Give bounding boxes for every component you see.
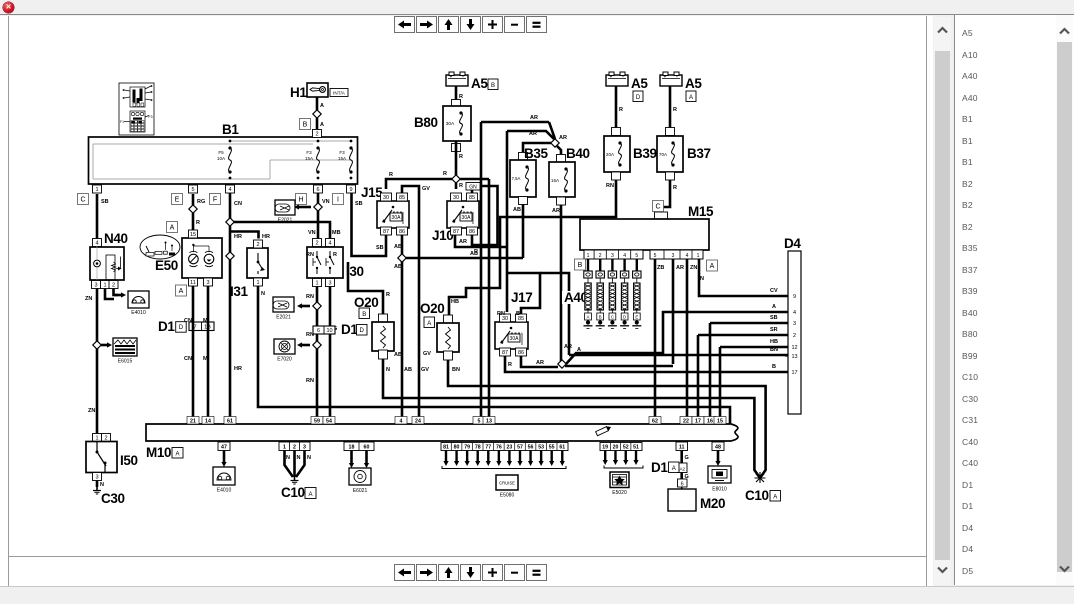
- svg-text:CV: CV: [770, 288, 778, 294]
- svg-text:2: 2: [315, 131, 318, 137]
- svg-text:1: 1: [256, 280, 259, 286]
- svg-text:A: A: [320, 122, 324, 128]
- svg-text:VN: VN: [322, 199, 330, 205]
- svg-text:ZN: ZN: [85, 296, 92, 302]
- svg-text:VN: VN: [308, 230, 316, 236]
- svg-text:INT/A: INT/A: [333, 91, 346, 96]
- svg-text:F3: F3: [306, 150, 312, 155]
- svg-text:B80: B80: [414, 115, 438, 130]
- svg-text:G: G: [685, 455, 689, 461]
- svg-text:4: 4: [400, 419, 403, 425]
- svg-text:RN: RN: [306, 252, 314, 258]
- svg-text:3: 3: [206, 280, 209, 286]
- svg-text:A: A: [773, 495, 777, 501]
- svg-text:E4010: E4010: [131, 310, 146, 316]
- svg-text:15A: 15A: [551, 178, 560, 183]
- svg-text:AR: AR: [552, 208, 560, 214]
- svg-text:A: A: [710, 263, 715, 270]
- svg-text:15A: 15A: [338, 156, 347, 161]
- svg-text:H: H: [298, 196, 303, 203]
- svg-text:I31: I31: [230, 284, 248, 299]
- svg-text:ZB: ZB: [657, 265, 664, 271]
- svg-text:24: 24: [415, 419, 421, 425]
- svg-text:18: 18: [349, 445, 355, 451]
- svg-text:A: A: [587, 315, 590, 320]
- svg-text:N: N: [100, 482, 104, 488]
- svg-text:E7020: E7020: [277, 357, 292, 363]
- svg-text:GN: GN: [469, 185, 477, 191]
- svg-text:11: 11: [679, 445, 685, 451]
- svg-text:A2: A2: [679, 466, 685, 471]
- svg-text:51: 51: [633, 445, 639, 451]
- svg-text:5: 5: [191, 187, 194, 193]
- svg-text:R: R: [673, 107, 677, 113]
- svg-text:RG: RG: [197, 199, 205, 205]
- svg-text:5: 5: [635, 253, 638, 259]
- svg-text:ZN: ZN: [88, 408, 95, 414]
- svg-text:56: 56: [528, 445, 534, 451]
- svg-text:+: +: [610, 74, 613, 79]
- svg-text:R: R: [459, 154, 463, 160]
- svg-text:ZN: ZN: [690, 265, 697, 271]
- svg-text:B: B: [599, 315, 602, 320]
- svg-text:C: C: [80, 196, 85, 203]
- svg-text:HB: HB: [770, 339, 778, 345]
- svg-text:16: 16: [707, 419, 713, 425]
- svg-text:52: 52: [623, 445, 629, 451]
- svg-text:R: R: [459, 183, 463, 189]
- svg-text:6: 6: [316, 187, 319, 193]
- svg-text:D: D: [179, 325, 184, 331]
- svg-text:AR: AR: [530, 115, 538, 121]
- svg-text:R: R: [474, 249, 478, 255]
- svg-text:SB: SB: [101, 199, 109, 205]
- svg-text:B: B: [491, 83, 495, 89]
- svg-text:4: 4: [228, 187, 231, 193]
- svg-text:57: 57: [517, 445, 523, 451]
- svg-text:M20: M20: [700, 496, 725, 511]
- svg-text:F: F: [213, 196, 217, 203]
- svg-text:AR: AR: [529, 131, 537, 137]
- svg-text:R: R: [333, 252, 337, 258]
- svg-text:53: 53: [538, 445, 544, 451]
- svg-text:I50: I50: [120, 453, 138, 468]
- svg-text:CN: CN: [234, 201, 242, 207]
- svg-text:E6021: E6021: [353, 488, 368, 494]
- svg-text:CRUISE: CRUISE: [499, 481, 515, 486]
- svg-text:11: 11: [190, 280, 196, 286]
- svg-text:30A: 30A: [446, 121, 455, 127]
- svg-text:D: D: [360, 328, 365, 334]
- svg-text:10: 10: [326, 328, 332, 334]
- svg-text:A: A: [308, 492, 312, 498]
- svg-text:13: 13: [791, 354, 797, 360]
- svg-text:N: N: [297, 455, 301, 461]
- svg-text:87: 87: [383, 229, 389, 235]
- svg-text:10A: 10A: [217, 156, 226, 161]
- svg-text:48: 48: [715, 445, 721, 451]
- svg-text:N: N: [286, 455, 290, 461]
- svg-text:A: A: [320, 103, 324, 109]
- svg-text:J17: J17: [511, 290, 532, 305]
- svg-text:CN: CN: [184, 318, 192, 324]
- svg-text:3: 3: [793, 321, 796, 327]
- svg-text:B: B: [516, 311, 520, 317]
- svg-text:N: N: [261, 291, 265, 297]
- svg-text:M15: M15: [688, 204, 714, 219]
- svg-text:D1: D1: [341, 322, 358, 337]
- svg-text:A5: A5: [471, 76, 488, 91]
- svg-text:AB: AB: [404, 367, 412, 373]
- svg-text:2: 2: [104, 435, 107, 441]
- svg-text:23: 23: [507, 445, 513, 451]
- svg-text:79: 79: [464, 445, 470, 451]
- svg-text:SR: SR: [770, 327, 778, 333]
- svg-text:6: 6: [317, 328, 320, 334]
- svg-text:1: 1: [95, 435, 98, 441]
- svg-text:47: 47: [221, 445, 227, 451]
- svg-text:1: 1: [283, 445, 286, 451]
- svg-text:60: 60: [364, 445, 370, 451]
- svg-text:20A: 20A: [606, 152, 615, 157]
- svg-text:HB: HB: [451, 299, 459, 305]
- svg-text:SB: SB: [770, 315, 778, 321]
- svg-text:4: 4: [328, 240, 331, 246]
- svg-text:2: 2: [793, 333, 796, 339]
- svg-text:R: R: [386, 292, 390, 298]
- svg-text:A: A: [179, 288, 184, 295]
- svg-text:D: D: [623, 315, 626, 320]
- svg-text:B40: B40: [566, 146, 590, 161]
- svg-text:N40: N40: [104, 231, 128, 246]
- svg-text:H1: H1: [290, 85, 307, 100]
- svg-text:62: 62: [652, 419, 658, 425]
- svg-text:HR: HR: [234, 234, 242, 240]
- svg-text:2: 2: [293, 445, 296, 451]
- svg-text:B: B: [578, 262, 583, 269]
- svg-text:4: 4: [686, 253, 689, 259]
- svg-text:61: 61: [559, 445, 565, 451]
- svg-text:55: 55: [549, 445, 555, 451]
- svg-text:17: 17: [791, 370, 797, 376]
- svg-text:AB: AB: [394, 352, 402, 358]
- svg-text:C: C: [611, 315, 614, 320]
- svg-text:SB: SB: [355, 201, 363, 207]
- svg-text:3: 3: [672, 253, 675, 259]
- svg-text:80: 80: [454, 445, 460, 451]
- svg-text:HR: HR: [262, 234, 270, 240]
- svg-text:D: D: [636, 95, 641, 101]
- svg-text:3: 3: [94, 282, 97, 288]
- svg-text:+: +: [664, 74, 667, 79]
- svg-text:4: 4: [95, 240, 98, 246]
- svg-text:A5: A5: [685, 76, 702, 91]
- svg-text:14: 14: [205, 419, 211, 425]
- svg-text:3: 3: [95, 474, 98, 480]
- svg-text:4: 4: [623, 253, 626, 259]
- svg-text:R: R: [443, 171, 447, 177]
- svg-text:17: 17: [695, 419, 701, 425]
- svg-text:15A: 15A: [305, 156, 314, 161]
- svg-text:AR: AR: [676, 265, 684, 271]
- svg-text:77: 77: [485, 445, 491, 451]
- svg-text:E8010: E8010: [712, 487, 727, 493]
- svg-text:86: 86: [469, 229, 475, 235]
- svg-text:MB: MB: [332, 230, 341, 236]
- svg-text:RN: RN: [306, 294, 314, 300]
- svg-text:86: 86: [399, 229, 405, 235]
- svg-text:D4: D4: [784, 236, 801, 251]
- svg-text:N: N: [307, 455, 311, 461]
- svg-text:C: C: [655, 203, 660, 210]
- svg-text:78: 78: [475, 445, 481, 451]
- svg-text:F3: F3: [339, 150, 345, 155]
- svg-text:22: 22: [683, 419, 689, 425]
- svg-text:19: 19: [602, 445, 608, 451]
- svg-text:SB: SB: [376, 245, 384, 251]
- svg-text:C10: C10: [745, 488, 769, 503]
- svg-text:30A: 30A: [462, 215, 472, 221]
- svg-text:E2021: E2021: [276, 315, 291, 321]
- svg-text:3: 3: [328, 280, 331, 286]
- svg-text:AB: AB: [513, 207, 521, 213]
- svg-text:GV: GV: [422, 186, 430, 192]
- svg-text:1: 1: [697, 253, 700, 259]
- svg-text:AR: AR: [459, 239, 467, 245]
- svg-text:+: +: [450, 74, 453, 79]
- svg-text:20: 20: [613, 445, 619, 451]
- svg-text:GV: GV: [423, 351, 431, 357]
- svg-text:R: R: [389, 172, 393, 178]
- svg-text:13: 13: [486, 419, 492, 425]
- svg-text:AB: AB: [394, 244, 402, 250]
- svg-text:6: 6: [681, 481, 684, 487]
- svg-text:30A: 30A: [510, 336, 520, 342]
- svg-text:J15: J15: [361, 185, 383, 200]
- svg-text:M10: M10: [146, 445, 171, 460]
- svg-text:F5: F5: [218, 150, 224, 155]
- svg-text:E50: E50: [155, 258, 178, 273]
- svg-text:85: 85: [469, 195, 475, 201]
- svg-text:A40: A40: [564, 290, 588, 305]
- svg-text:B1: B1: [222, 122, 239, 137]
- svg-text:RN: RN: [606, 183, 614, 189]
- svg-text:15: 15: [190, 232, 196, 238]
- svg-text:B35: B35: [524, 146, 548, 161]
- svg-text:15: 15: [717, 419, 723, 425]
- svg-text:B39: B39: [633, 146, 657, 161]
- svg-text:2: 2: [315, 240, 318, 246]
- svg-text:F3: F3: [149, 115, 153, 119]
- svg-text:A: A: [170, 224, 175, 231]
- svg-text:M: M: [203, 356, 208, 362]
- svg-text:30: 30: [453, 195, 459, 201]
- svg-text:BN: BN: [452, 367, 460, 373]
- svg-text:7,5A: 7,5A: [512, 176, 521, 181]
- svg-text:5: 5: [654, 253, 657, 259]
- svg-text:70A: 70A: [659, 152, 668, 157]
- svg-text:1: 1: [587, 253, 590, 259]
- svg-text:HR: HR: [234, 366, 242, 372]
- svg-text:E5080: E5080: [500, 493, 515, 499]
- svg-text:2: 2: [112, 282, 115, 288]
- svg-text:87: 87: [453, 229, 459, 235]
- svg-text:4: 4: [793, 310, 796, 316]
- svg-text:9: 9: [349, 187, 352, 193]
- svg-text:AR: AR: [536, 360, 544, 366]
- svg-text:1: 1: [315, 280, 318, 286]
- svg-text:9: 9: [793, 294, 796, 300]
- svg-text:R: R: [196, 220, 200, 226]
- svg-text:I: I: [337, 196, 339, 203]
- svg-text:E4010: E4010: [217, 488, 232, 494]
- svg-text:2: 2: [256, 242, 259, 248]
- svg-text:A: A: [772, 304, 776, 310]
- svg-text:O20: O20: [420, 301, 444, 316]
- svg-text:AR: AR: [559, 135, 567, 141]
- svg-text:D1: D1: [158, 319, 175, 334]
- svg-text:21: 21: [190, 419, 196, 425]
- svg-text:R: R: [508, 362, 512, 368]
- svg-text:1: 1: [103, 282, 106, 288]
- svg-text:AB: AB: [394, 264, 402, 270]
- svg-text:CN: CN: [184, 356, 192, 362]
- svg-text:81: 81: [443, 445, 449, 451]
- svg-text:B: B: [362, 312, 366, 318]
- svg-text:A: A: [577, 347, 581, 353]
- svg-text:D1: D1: [651, 460, 668, 475]
- svg-text:N: N: [700, 276, 704, 282]
- svg-text:C10: C10: [281, 485, 305, 500]
- svg-text:30A: 30A: [392, 215, 402, 221]
- svg-text:E6015: E6015: [118, 359, 133, 365]
- svg-text:C30: C30: [101, 491, 125, 506]
- svg-text:R: R: [619, 107, 623, 113]
- svg-text:54: 54: [326, 419, 332, 425]
- svg-text:E: E: [635, 315, 638, 320]
- svg-text:E: E: [175, 196, 180, 203]
- svg-text:A5: A5: [631, 76, 648, 91]
- svg-text:RN: RN: [497, 311, 505, 317]
- svg-text:GV: GV: [421, 367, 429, 373]
- svg-text:F1: F1: [120, 120, 124, 124]
- svg-text:R: R: [673, 185, 677, 191]
- svg-text:2: 2: [599, 253, 602, 259]
- svg-text:B37: B37: [687, 146, 711, 161]
- svg-text:BN: BN: [770, 347, 778, 353]
- svg-text:59: 59: [314, 419, 320, 425]
- svg-text:M: M: [203, 318, 208, 324]
- svg-text:30: 30: [383, 195, 389, 201]
- svg-text:A: A: [689, 95, 693, 101]
- svg-text:B: B: [303, 121, 308, 128]
- svg-text:85: 85: [399, 195, 405, 201]
- svg-text:A: A: [672, 466, 676, 472]
- svg-text:76: 76: [496, 445, 502, 451]
- svg-text:A: A: [427, 321, 431, 327]
- svg-text:1: 1: [95, 187, 98, 193]
- svg-text:3: 3: [303, 445, 306, 451]
- svg-text:A: A: [175, 452, 179, 458]
- svg-text:N: N: [386, 367, 390, 373]
- svg-text:3: 3: [611, 253, 614, 259]
- svg-text:5: 5: [478, 419, 481, 425]
- svg-text:RN: RN: [306, 378, 314, 384]
- svg-text:12: 12: [791, 345, 797, 351]
- svg-text:E5020: E5020: [612, 490, 627, 496]
- svg-text:61: 61: [227, 419, 233, 425]
- svg-text:R: R: [459, 94, 463, 100]
- svg-text:86: 86: [518, 350, 524, 356]
- svg-text:87: 87: [502, 350, 508, 356]
- svg-text:B: B: [772, 364, 776, 370]
